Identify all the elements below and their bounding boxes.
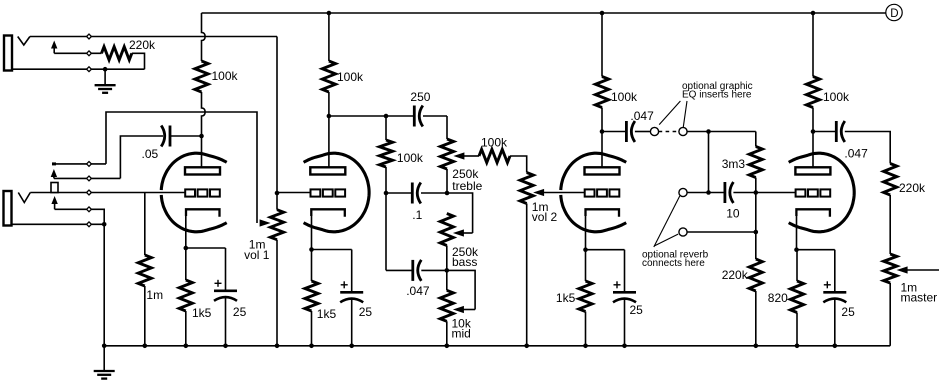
- svg-text:treble: treble: [452, 179, 482, 193]
- svg-text:25: 25: [359, 305, 373, 319]
- svg-text:100k: 100k: [611, 90, 638, 104]
- svg-text:1k5: 1k5: [317, 307, 337, 321]
- svg-text:220k: 220k: [129, 38, 156, 52]
- svg-text:connects here: connects here: [642, 258, 705, 269]
- svg-text:1m: 1m: [146, 288, 163, 302]
- svg-text:vol 2: vol 2: [532, 210, 558, 224]
- svg-text:25: 25: [841, 305, 855, 319]
- svg-text:100k: 100k: [823, 90, 850, 104]
- svg-text:100k: 100k: [212, 69, 239, 83]
- svg-text:vol 1: vol 1: [244, 248, 270, 262]
- svg-text:.05: .05: [142, 147, 159, 161]
- svg-text:250: 250: [410, 90, 430, 104]
- svg-text:100k: 100k: [481, 136, 508, 150]
- svg-text:1k5: 1k5: [556, 291, 576, 305]
- svg-text:220k: 220k: [722, 268, 749, 282]
- svg-text:820: 820: [768, 291, 788, 305]
- svg-text:25: 25: [630, 303, 644, 317]
- svg-text:100k: 100k: [337, 70, 364, 84]
- svg-text:bass: bass: [452, 255, 477, 269]
- svg-text:3m3: 3m3: [722, 157, 746, 171]
- svg-text:220k: 220k: [899, 181, 926, 195]
- svg-text:.047: .047: [844, 147, 868, 161]
- svg-text:EQ inserts here: EQ inserts here: [682, 90, 752, 101]
- svg-text:25: 25: [233, 305, 247, 319]
- svg-text:1k5: 1k5: [192, 306, 212, 320]
- svg-text:10: 10: [726, 207, 740, 221]
- svg-text:D: D: [890, 8, 898, 20]
- svg-text:.047: .047: [630, 109, 654, 123]
- svg-text:mid: mid: [452, 327, 471, 341]
- svg-text:master: master: [901, 291, 938, 305]
- svg-text:.047: .047: [406, 284, 430, 298]
- svg-text:100k: 100k: [397, 151, 424, 165]
- svg-text:.1: .1: [412, 208, 422, 222]
